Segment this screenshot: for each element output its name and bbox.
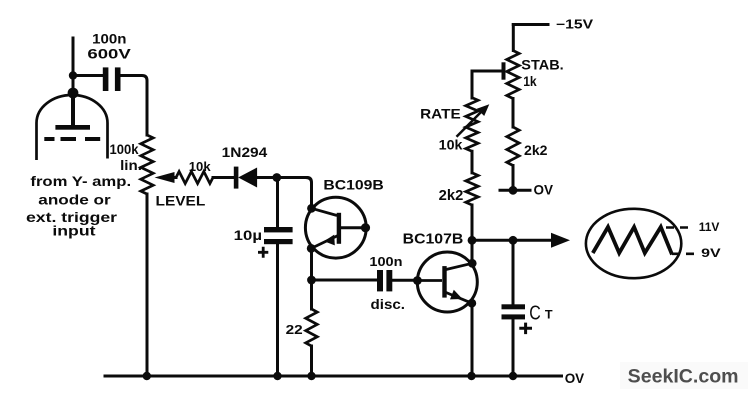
svg-text:RATE: RATE — [420, 106, 461, 122]
svg-text:−15V: −15V — [556, 17, 594, 31]
svg-text:STAB.: STAB. — [521, 56, 563, 72]
svg-text:2k2: 2k2 — [524, 142, 548, 158]
svg-text:T: T — [545, 310, 553, 322]
svg-text:from Y- amp.: from Y- amp. — [30, 173, 131, 189]
svg-text:disc.: disc. — [371, 296, 406, 312]
svg-text:anode or: anode or — [38, 192, 111, 208]
svg-text:22: 22 — [286, 322, 303, 337]
svg-text:10k: 10k — [439, 137, 463, 153]
svg-text:9V: 9V — [701, 246, 721, 260]
svg-text:SeekIC.com: SeekIC.com — [628, 367, 739, 388]
svg-text:lin.: lin. — [120, 157, 142, 173]
svg-text:100n: 100n — [92, 31, 126, 46]
svg-text:11V: 11V — [699, 220, 720, 234]
svg-text:1k: 1k — [523, 73, 537, 89]
svg-text:LEVEL: LEVEL — [156, 192, 206, 208]
svg-text:2k2: 2k2 — [439, 188, 464, 204]
svg-text:100k: 100k — [110, 142, 139, 157]
svg-text:10k: 10k — [189, 159, 212, 174]
svg-text:BC107B: BC107B — [403, 231, 464, 247]
svg-text:input: input — [52, 222, 96, 238]
svg-text:600V: 600V — [87, 46, 130, 61]
svg-text:OV: OV — [534, 182, 554, 198]
svg-text:OV: OV — [565, 370, 585, 386]
svg-text:BC109B: BC109B — [323, 176, 383, 192]
svg-text:C: C — [529, 303, 541, 325]
svg-text:10µ: 10µ — [234, 227, 262, 243]
svg-text:100n: 100n — [369, 254, 402, 269]
svg-text:1N294: 1N294 — [222, 145, 268, 160]
